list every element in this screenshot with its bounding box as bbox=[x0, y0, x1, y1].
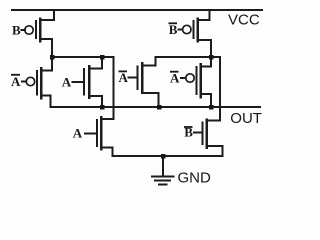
svg-text:GND: GND bbox=[178, 169, 212, 186]
transistor Q6 source wire to OUT line bbox=[142, 93, 159, 107]
OUT line bbox=[51, 106, 261, 108]
node dot N1-left bbox=[50, 55, 55, 60]
ground symbol bar 2 bbox=[155, 179, 170, 181]
node dot N1-mid bbox=[100, 55, 105, 60]
wire: A-bar gate wire bbox=[129, 77, 138, 79]
ground symbol bar 3 bbox=[159, 183, 167, 185]
wire: B-bar gate wire bbox=[194, 132, 203, 134]
transistor Q2 gate bubble bbox=[183, 25, 191, 33]
transistor Q4 gate bar bbox=[195, 67, 197, 94]
node dot GND bbox=[161, 154, 166, 159]
node dot OUT-right bbox=[209, 105, 214, 110]
transistor Q8 source wire to ground rail bbox=[207, 146, 223, 156]
transistor Q5 channel bar bbox=[88, 66, 91, 98]
transistor Q8 gate bar bbox=[202, 122, 204, 144]
transistor Q2 gate bar bbox=[193, 21, 195, 38]
wire: Q1 source to VCC rail bbox=[40, 10, 54, 20]
transistor Q4 source wire to N2 bbox=[201, 57, 212, 67]
ground rail bbox=[113, 155, 223, 157]
node N1 wire bbox=[52, 57, 114, 119]
transistor Q6 drain wire to N2 bbox=[142, 57, 156, 66]
transistor Q1 channel bar bbox=[39, 19, 42, 42]
transistor Q8 drain lead bbox=[207, 120, 221, 122]
svg-text:A: A bbox=[73, 125, 83, 140]
transistor Q7 channel bar bbox=[100, 117, 103, 149]
transistor Q1 gate bar bbox=[35, 21, 37, 38]
node dot OUT-left bbox=[100, 105, 105, 110]
ground symbol bar 1 bbox=[152, 175, 174, 177]
transistor Q7 gate bar bbox=[96, 120, 98, 146]
transistor Q7 drain lead bbox=[101, 118, 114, 120]
transistor Q6 gate bar bbox=[136, 67, 138, 90]
wire: Q2 source to VCC rail bbox=[198, 10, 210, 20]
transistor Q3 channel bar bbox=[40, 68, 43, 98]
wire: A-bar gate dash bbox=[22, 81, 26, 83]
transistor Q3 gate bar bbox=[36, 71, 38, 95]
wire: Q1 drain to node N1 bbox=[40, 39, 52, 57]
transistor Q5 source wire to OUT line bbox=[89, 96, 102, 107]
transistor Q1 gate bubble bbox=[25, 26, 33, 34]
transistor Q3 source wire to N1 bbox=[41, 57, 52, 71]
svg-text:VCC: VCC bbox=[228, 11, 260, 28]
node dot OUT-mid bbox=[157, 105, 162, 110]
junction dots bbox=[50, 55, 214, 159]
wire: B gate dash bbox=[22, 29, 26, 31]
VCC rail bbox=[12, 9, 262, 11]
transistor Q5 gate bar bbox=[83, 69, 85, 95]
transistor Q3 gate bubble bbox=[26, 77, 34, 85]
svg-text:OUT: OUT bbox=[230, 110, 262, 127]
transistor Q2 channel bar bbox=[196, 19, 199, 42]
transistor Q6 channel bar bbox=[141, 63, 144, 93]
wire: A gate wire bbox=[73, 81, 85, 83]
wire: ground tap bbox=[162, 156, 164, 176]
transistor Q5 drain wire to N1 bbox=[89, 57, 102, 69]
transistor Q8 channel bar bbox=[205, 120, 208, 148]
wire: B-bar gate dash bbox=[179, 29, 183, 31]
svg-text:A: A bbox=[11, 74, 21, 89]
transistor Q4 gate bubble bbox=[186, 74, 194, 82]
transistor Q4 drain wire to OUT line bbox=[201, 94, 212, 107]
transistor Q3 drain wire to OUT line bbox=[41, 96, 51, 108]
wire: A-bar gate dash bbox=[181, 77, 186, 79]
svg-text:A: A bbox=[62, 75, 72, 90]
wire: A gate wire bbox=[85, 132, 97, 134]
transistor Q4 channel bar bbox=[199, 64, 202, 97]
wire: Q2 drain to node N2 bbox=[198, 40, 212, 57]
node N2 wire bbox=[156, 57, 221, 121]
svg-text:B: B bbox=[12, 23, 21, 38]
node dot N2 bbox=[209, 55, 214, 60]
transistor Q7 source wire to ground rail bbox=[101, 148, 113, 157]
